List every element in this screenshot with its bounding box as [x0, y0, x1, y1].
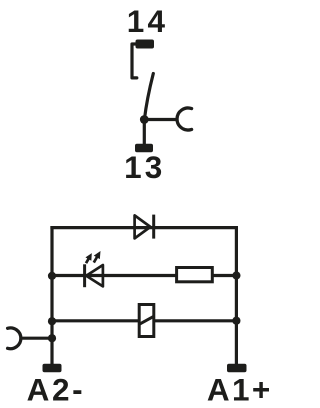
terminal 14	[136, 40, 155, 49]
wire from pivot down to terminal 13	[143, 120, 146, 146]
terminal A2	[43, 364, 62, 373]
wire middle row (LED + resistor)	[52, 274, 236, 277]
junction node left rail / middle row	[48, 272, 56, 280]
wire left vertical rail	[50, 226, 53, 365]
svg-text:A2-: A2-	[27, 371, 86, 407]
wire right vertical rail	[235, 226, 238, 365]
LED light arrow 1	[83, 251, 95, 264]
wire hook from terminal 14	[132, 44, 137, 78]
terminal A1	[227, 364, 247, 373]
diode V1 (freewheeling, top row)	[135, 215, 154, 239]
wire top horizontal (diode row)	[50, 226, 238, 229]
LED indicator (points left)	[85, 264, 103, 287]
wire from plug contact to left rail	[20, 337, 52, 340]
wire relay row	[52, 319, 236, 322]
wire from pivot to plug contact	[144, 118, 176, 121]
switch blade contact 13-14	[144, 74, 153, 120]
plug-in contact symbol (bottom left, opening left)	[8, 328, 21, 349]
relay coil K1	[139, 305, 154, 337]
junction node left rail / plug row	[48, 334, 56, 342]
svg-text:14: 14	[127, 3, 168, 39]
resistor R1 (middle row)	[177, 268, 213, 282]
junction node right rail / middle row	[232, 271, 240, 279]
junction node left rail / relay row	[48, 317, 56, 325]
junction node right rail / relay row	[232, 317, 240, 325]
svg-text:A1+: A1+	[207, 371, 273, 407]
plug-in contact symbol (right, opening right)	[177, 108, 192, 130]
LED light arrow 2	[91, 249, 104, 264]
svg-text:13: 13	[124, 149, 165, 185]
terminal 13	[135, 144, 153, 153]
junction node at contact pivot	[140, 115, 149, 124]
